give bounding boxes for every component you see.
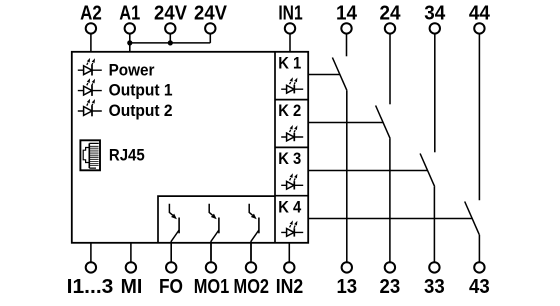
svg-text:IN2: IN2 bbox=[276, 276, 304, 298]
svg-text:IN1: IN1 bbox=[278, 2, 302, 24]
svg-text:14: 14 bbox=[336, 2, 358, 24]
svg-text:34: 34 bbox=[424, 2, 446, 24]
svg-text:K 1: K 1 bbox=[278, 53, 301, 72]
svg-text:24: 24 bbox=[380, 2, 402, 24]
svg-text:23: 23 bbox=[380, 276, 401, 298]
svg-text:Output 1: Output 1 bbox=[109, 81, 173, 100]
svg-text:24V: 24V bbox=[154, 2, 188, 24]
svg-text:K 3: K 3 bbox=[278, 149, 301, 168]
svg-text:K 4: K 4 bbox=[278, 197, 301, 216]
svg-text:MI: MI bbox=[121, 276, 143, 298]
svg-text:A2: A2 bbox=[80, 2, 102, 24]
svg-text:43: 43 bbox=[469, 276, 490, 298]
svg-text:Power: Power bbox=[109, 60, 155, 79]
svg-text:13: 13 bbox=[336, 276, 357, 298]
svg-text:I1...3: I1...3 bbox=[67, 276, 114, 298]
svg-text:33: 33 bbox=[424, 276, 445, 298]
svg-text:MO1: MO1 bbox=[194, 276, 230, 298]
svg-text:FO: FO bbox=[159, 276, 183, 298]
svg-text:K 2: K 2 bbox=[278, 101, 301, 120]
svg-text:Output 2: Output 2 bbox=[109, 101, 173, 120]
svg-text:MO2: MO2 bbox=[234, 276, 270, 298]
svg-text:RJ45: RJ45 bbox=[109, 146, 145, 165]
svg-text:24V: 24V bbox=[194, 2, 228, 24]
svg-text:A1: A1 bbox=[119, 2, 140, 24]
svg-text:44: 44 bbox=[469, 2, 491, 24]
